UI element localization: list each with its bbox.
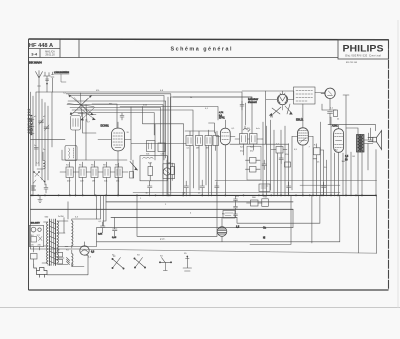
wire riser cluster x168 bbox=[168, 97, 252, 196]
svg-text:AZ41: AZ41 bbox=[332, 125, 338, 128]
svg-text:1M: 1M bbox=[168, 163, 171, 165]
wire mid horizontals bbox=[131, 107, 215, 197]
left column wire a bbox=[30, 92, 32, 249]
resistor R14 bbox=[170, 163, 174, 181]
return wire y248 bbox=[80, 249, 377, 253]
capacitor C21 bbox=[148, 181, 153, 196]
return wire y223 bbox=[237, 196, 320, 223]
capacitor C38 bbox=[279, 154, 283, 164]
capacitor C51 bbox=[322, 182, 327, 196]
wire transformer tops bbox=[346, 128, 362, 196]
label longue antenne bbox=[54, 71, 70, 82]
capacitor C35 bbox=[328, 110, 338, 117]
return riser x311 bbox=[311, 195, 313, 243]
band switch contacts SK1 bbox=[33, 171, 45, 183]
fuse box F1 bbox=[31, 254, 38, 265]
AF cluster box bbox=[140, 141, 175, 181]
coupling capacitor C30 bbox=[243, 126, 250, 132]
switch wafer marks bbox=[32, 186, 36, 190]
IF can T3 bbox=[91, 167, 98, 178]
heater winding L11 bbox=[72, 254, 73, 267]
svg-text:osc: osc bbox=[109, 103, 112, 105]
riser x106 bbox=[103, 196, 106, 221]
left column wire b bbox=[32, 96, 34, 196]
heater bus line4 bbox=[111, 217, 237, 219]
antenna AE1 bbox=[36, 71, 43, 93]
wire transformer risers bbox=[64, 196, 104, 247]
IF can drop wires bbox=[70, 178, 119, 196]
antenna AE2 bbox=[44, 72, 51, 92]
IF can T2 bbox=[79, 167, 86, 178]
capacitor C22 bbox=[184, 181, 189, 196]
wire y160 link bbox=[62, 150, 127, 160]
title block left: HF 448 A bbox=[29, 39, 339, 57]
magic eye V3 EM34 bbox=[277, 93, 287, 110]
coil hook L3 bbox=[37, 152, 45, 169]
ground mark G1 bbox=[38, 195, 42, 202]
wire top right run bbox=[328, 117, 376, 131]
switch SK2 bbox=[112, 256, 124, 269]
wire mid link bbox=[230, 139, 324, 159]
svg-text:PU: PU bbox=[222, 214, 225, 216]
left column wire d bbox=[38, 92, 40, 166]
capacitor C41 bbox=[113, 225, 118, 236]
oscillator coil S1 can bbox=[71, 116, 81, 131]
wire mains cord bbox=[47, 255, 88, 275]
svg-text:Schéma général: Schéma général bbox=[171, 46, 233, 52]
wire heater top bbox=[72, 219, 97, 267]
wire top bus 6 bbox=[72, 110, 193, 136]
small caps row C45 bbox=[234, 196, 238, 204]
svg-text:110: 110 bbox=[31, 235, 34, 237]
output tube V4 EBL21 bbox=[292, 104, 313, 196]
right mid columns bbox=[263, 120, 292, 196]
svg-text:29.01.20: 29.01.20 bbox=[45, 54, 55, 57]
coil L5 can bbox=[65, 146, 77, 161]
phono socket P1 bbox=[217, 218, 227, 242]
bias line bbox=[300, 184, 340, 186]
magic eye ray strokes bbox=[270, 104, 293, 116]
left column wire c bbox=[35, 92, 37, 166]
left column wire f bbox=[44, 103, 46, 186]
svg-text:127: 127 bbox=[37, 235, 40, 237]
wire right riser bbox=[322, 95, 349, 125]
wire middle columns bbox=[190, 130, 217, 236]
tuning gang C2 starburst bbox=[78, 105, 96, 122]
svg-text:HF448A 22.8: HF448A 22.8 bbox=[30, 114, 33, 135]
capacitor C37 bbox=[262, 160, 267, 170]
left column wire e bbox=[41, 99, 43, 180]
capacitor C11 bbox=[44, 184, 48, 193]
resistor block R23 bbox=[205, 136, 212, 146]
svg-text:HF 448 A: HF 448 A bbox=[29, 43, 53, 49]
voltage selector SK10 bbox=[30, 225, 44, 252]
wire eye connections bbox=[266, 91, 294, 144]
svg-text:kc/s: kc/s bbox=[256, 128, 260, 130]
page edge shadow line bottom bbox=[0, 307, 400, 309]
resistor R43 bbox=[246, 167, 261, 173]
resistor R13 bbox=[148, 163, 153, 181]
tube V2 EF41 bbox=[216, 120, 235, 196]
resistor R61 bbox=[55, 259, 63, 264]
svg-text:gram.: gram. bbox=[160, 238, 166, 241]
wire starburst right bbox=[92, 104, 117, 128]
HT bus line3 bbox=[31, 208, 294, 210]
tube V1 ECH81 bbox=[98, 122, 131, 196]
nested corner wires top middle bbox=[66, 94, 252, 196]
transformer primary winding bbox=[47, 222, 48, 264]
heater winding L10 bbox=[72, 221, 73, 247]
wire gang down 2 bbox=[85, 119, 87, 160]
svg-text:B3X 88A/04: B3X 88A/04 bbox=[29, 62, 42, 65]
feedback line bbox=[215, 179, 377, 181]
wire eye top feed bbox=[242, 90, 294, 92]
left column wire h bbox=[51, 92, 53, 147]
IF can T7 bbox=[250, 134, 258, 145]
left bus stub bbox=[31, 248, 81, 250]
svg-text:2M: 2M bbox=[196, 148, 199, 150]
wire top bus 7 bbox=[74, 113, 154, 135]
wire top bus 4 bbox=[67, 105, 163, 197]
tuning gang C1 starburst bbox=[68, 93, 95, 117]
left margin ticks bbox=[29, 120, 34, 134]
svg-text:2x350: 2x350 bbox=[58, 216, 65, 218]
resistor block R22 bbox=[196, 136, 203, 146]
coil L12 bbox=[67, 258, 70, 265]
svg-text:899 753 109: 899 753 109 bbox=[346, 62, 358, 64]
antenna 2 arrow bbox=[46, 83, 48, 85]
left margin terminal A bbox=[30, 122, 33, 125]
wire cans row links bbox=[60, 171, 128, 173]
power transformer T9 core bbox=[50, 219, 56, 266]
trimmer capacitor C6 bbox=[44, 125, 49, 131]
svg-text:d'accord: d'accord bbox=[248, 101, 257, 104]
volume potentiometer R12 bbox=[163, 160, 170, 196]
trimmer capacitor C5 bbox=[39, 119, 44, 125]
small caps row C46 bbox=[234, 204, 238, 211]
switch SK4 bbox=[159, 256, 171, 271]
svg-text:Indicateur: Indicateur bbox=[248, 98, 258, 101]
return wire y242 bbox=[97, 196, 340, 242]
svg-text:1M: 1M bbox=[92, 181, 95, 183]
svg-text:1M: 1M bbox=[206, 148, 209, 150]
riser x114 bbox=[114, 218, 116, 226]
svg-text:ECH81: ECH81 bbox=[101, 124, 110, 128]
svg-text:EBL21: EBL21 bbox=[296, 119, 304, 122]
resistor box R41 bbox=[314, 144, 321, 159]
page edge shadow line right bbox=[397, 20, 399, 308]
box R50 bbox=[247, 200, 263, 206]
IF can T5 bbox=[115, 167, 122, 178]
svg-text:Obj/SERVICE Central: Obj/SERVICE Central bbox=[345, 53, 381, 57]
small caps row C47 bbox=[234, 211, 238, 217]
svg-text:PHILIPS: PHILIPS bbox=[343, 44, 385, 55]
screen wiring box bbox=[247, 146, 261, 180]
resistor R42 bbox=[246, 158, 261, 164]
wire osc to tube bbox=[83, 112, 97, 133]
wire transformer to speaker bbox=[364, 128, 373, 144]
wire left horizontal y140 bbox=[31, 139, 66, 141]
main ground bus bbox=[31, 194, 377, 196]
box R51 bbox=[262, 199, 269, 207]
left column wire g bbox=[47, 106, 49, 180]
capacitor C40 bbox=[101, 222, 106, 233]
resistor box R44 bbox=[285, 162, 291, 167]
capacitor C50 bbox=[287, 182, 292, 196]
wire gang down bbox=[75, 130, 77, 196]
wire top bus 1 bbox=[36, 92, 246, 134]
pilot lamp LA2 bbox=[80, 242, 89, 255]
resistor block R21 bbox=[186, 136, 193, 146]
resistor box R30 bbox=[294, 87, 316, 104]
value labels scatter bbox=[34, 90, 356, 267]
return riser x291 bbox=[250, 195, 291, 244]
selector voltage labels bbox=[31, 235, 41, 247]
wire riser x214 bbox=[209, 123, 215, 133]
left margin terminal B bbox=[30, 129, 33, 132]
switch SK5 bbox=[183, 253, 192, 271]
svg-text:3-4: 3-4 bbox=[31, 51, 38, 56]
rectifier tube V5 AZ41 bbox=[334, 125, 344, 196]
pickup terminal box PU bbox=[223, 211, 235, 219]
right columns far bbox=[313, 117, 368, 196]
wire riser x218 bbox=[120, 107, 218, 121]
schematic frame border bbox=[29, 39, 389, 290]
resistor block R24 bbox=[213, 132, 219, 151]
wire top bus 3 bbox=[68, 101, 166, 158]
resistor network box R45 bbox=[259, 184, 270, 192]
wire top bus 5 bbox=[70, 108, 161, 144]
speaker LS1 bbox=[368, 131, 382, 150]
detector diode D1 bbox=[130, 160, 138, 178]
PHILIPS logo box bbox=[338, 40, 389, 64]
svg-text:110-245V: 110-245V bbox=[31, 223, 41, 225]
HT bus line2 bbox=[106, 201, 293, 203]
transformer secondary winding bbox=[57, 221, 58, 263]
output transformer T8 bbox=[357, 135, 365, 153]
IF can top stubs bbox=[70, 161, 119, 167]
dial lamp LA1 bbox=[321, 88, 335, 110]
svg-text:220: 220 bbox=[31, 245, 34, 247]
wire box R30 bbox=[315, 93, 325, 111]
IF can T6 bbox=[240, 134, 248, 145]
IF can T4 bbox=[103, 167, 110, 178]
transformer taps bbox=[42, 221, 68, 265]
return wire y236 bbox=[137, 195, 217, 236]
svg-text:LONGUE ANTENNE: LONGUE ANTENNE bbox=[54, 71, 70, 74]
svg-text:245: 245 bbox=[38, 245, 41, 247]
AVC line bbox=[133, 191, 340, 193]
wire cans T6T7 bbox=[235, 139, 262, 155]
capacitor C24 bbox=[215, 182, 219, 196]
resistor R60 bbox=[55, 252, 63, 257]
capacitor C33 bbox=[240, 101, 244, 110]
grid capacitor C8 bbox=[120, 113, 124, 120]
mains plug X1 bbox=[34, 264, 47, 277]
svg-text:EM: EM bbox=[270, 117, 273, 119]
IF can T1 bbox=[66, 167, 73, 178]
return wire y227 bbox=[97, 209, 294, 227]
resistor R40 bbox=[271, 147, 287, 154]
antenna jack J1 bbox=[51, 72, 54, 92]
capacitor C23 bbox=[200, 180, 205, 196]
wire speaker down bbox=[375, 150, 377, 197]
bus junction dots bbox=[31, 195, 377, 197]
switch SK3 bbox=[134, 255, 146, 269]
wire top bus 2 bbox=[70, 96, 164, 161]
capacitor C9 bbox=[34, 148, 38, 150]
